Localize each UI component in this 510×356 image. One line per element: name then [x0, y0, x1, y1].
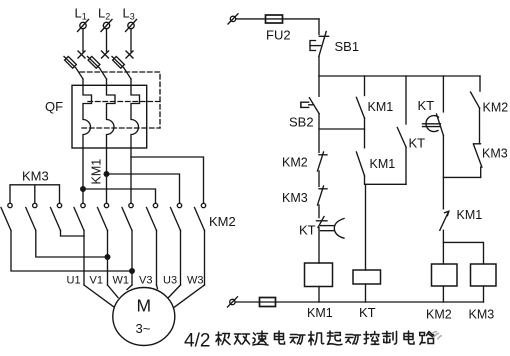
label KM2 (power bank): [209, 214, 236, 229]
wire branch4 mid: [442, 136, 444, 209]
svg-text:KM3: KM3: [282, 191, 308, 205]
wire KT coil feed: [365, 184, 367, 270]
svg-text:KM2: KM2: [483, 101, 509, 115]
wire branch4 to bridge: [442, 230, 444, 264]
label U1: [67, 275, 81, 287]
contactor KM3 main contact 3: [51, 203, 62, 230]
motor label 3~: [136, 321, 151, 336]
label KM3 (branch5): [482, 147, 508, 161]
wire phase2 below QF: [106, 148, 108, 203]
wire branch3 bottom: [405, 147, 407, 184]
label SB2: [289, 115, 314, 130]
contactor KM1 main contact 2: [98, 203, 109, 230]
svg-text:4/2: 4/2: [184, 331, 210, 352]
fixed contact x phase1: [78, 51, 85, 58]
svg-text:V1: V1: [90, 275, 103, 287]
wire W1 to motor: [127, 285, 132, 290]
wire L3 drop: [130, 29, 132, 52]
wire V1 down: [107, 231, 109, 286]
terminal control top: [228, 14, 238, 24]
QF pole 2: [107, 85, 116, 148]
wire phase1 to KM2 contact1: [83, 189, 156, 203]
contact KM2 NC (branch1): [318, 152, 328, 171]
wire branch5 tie: [443, 176, 480, 178]
label U3: [163, 275, 177, 287]
terminal control bottom: [228, 297, 238, 307]
wire L1 drop: [82, 29, 84, 52]
label L3: [123, 6, 135, 22]
wire KM3 c2 to node V1: [36, 231, 108, 258]
contactor KM2 main contact 1: [147, 203, 158, 230]
QF linkage dashed: [80, 72, 160, 128]
fixed contact x phase3: [126, 51, 133, 58]
circuit breaker QF box: [72, 85, 147, 148]
label KT (branch4): [418, 98, 435, 113]
svg-text:KM3: KM3: [469, 308, 495, 322]
coil KT: [353, 270, 381, 284]
label KT (branch1): [299, 223, 316, 238]
wire phase1 below QF: [82, 148, 84, 203]
wire branch1 top: [318, 76, 320, 96]
svg-text:KT: KT: [359, 305, 376, 320]
contact KM1 NO (branch4): [440, 211, 449, 230]
wire coil KM3 to bus: [483, 286, 485, 302]
contact KT NC delayed (branch1): [317, 217, 345, 239]
node phase1 junction: [81, 187, 86, 192]
svg-text:W1: W1: [113, 275, 130, 287]
wire coil KM2 to bus: [442, 286, 444, 302]
label V3: [139, 275, 152, 287]
label FU2: [266, 28, 291, 43]
wire phase3 to KM2 contact3: [131, 157, 204, 203]
QF pole 1: [83, 85, 92, 148]
wire KM3 c1 to node W1: [11, 231, 132, 272]
label KM1 b: [370, 157, 396, 171]
watermark: [432, 332, 442, 340]
wire latch tie: [319, 128, 365, 130]
fuse-switch blade phase3: [112, 56, 131, 79]
wire V3 down: [156, 231, 158, 286]
wire phase2 to KM2 contact2: [107, 174, 180, 203]
svg-text:V3: V3: [139, 275, 152, 287]
svg-text:KM3: KM3: [482, 147, 508, 161]
label SB1: [335, 39, 360, 54]
wire control bus: [319, 75, 480, 77]
svg-text:QF: QF: [45, 99, 63, 114]
contact KM3 NC (branch5): [473, 144, 482, 167]
contact KM1 NO b (branch2): [356, 152, 364, 176]
contact KM2 NO (branch5): [471, 92, 480, 108]
fuse FU2: [266, 15, 283, 23]
wire V1 to motor: [108, 285, 119, 298]
wire branch5 top: [479, 76, 481, 91]
fuse-switch blade phase1: [64, 56, 83, 79]
svg-text:KM1: KM1: [370, 157, 396, 171]
contact KM1 NO a (branch2): [356, 97, 364, 118]
svg-text:KM1: KM1: [307, 306, 333, 320]
contactor KM2 main contact 3: [195, 203, 206, 230]
contactor KM3 main contact 1: [1, 203, 12, 230]
svg-text:KM2: KM2: [426, 308, 452, 322]
label L2: [98, 6, 110, 22]
node phase2 junction: [104, 172, 109, 177]
contactor KM1 main contact 1: [74, 203, 85, 230]
wire L2 drop: [106, 29, 108, 52]
wire SB2 bottom: [318, 114, 320, 153]
wire W3 to motor: [175, 285, 205, 307]
motor label M: [137, 296, 152, 316]
wire KM3 bus: [10, 185, 60, 204]
fuse FU (bottom): [260, 298, 276, 307]
wire coil KT to bus: [365, 284, 367, 302]
caption hanzi 极双速电动机起动控制电路: [216, 331, 434, 345]
svg-text:W3: W3: [187, 275, 204, 287]
fuse-switch blade phase2: [88, 56, 107, 79]
QF pole 3: [131, 85, 140, 148]
svg-text:KT: KT: [299, 223, 316, 238]
svg-text:U3: U3: [163, 275, 177, 287]
label L1: [75, 6, 87, 22]
wire branch1 mid1: [318, 171, 320, 186]
svg-text:KM2: KM2: [209, 214, 236, 229]
wire branch1 to coil: [318, 228, 320, 264]
label KM2 (branch5): [483, 101, 509, 115]
fixed contact x phase2: [102, 51, 109, 58]
wire top feed: [236, 18, 319, 20]
wire U3 to motor: [169, 285, 181, 298]
label KT (coil): [359, 305, 376, 320]
wire branch5 bottom: [480, 167, 482, 177]
contact KM3 NC (branch1): [318, 186, 328, 205]
label KM2 (branch1): [282, 156, 308, 170]
contact KT NO delayed (branch4): [423, 114, 444, 136]
label W3: [187, 275, 204, 287]
wire phase3 into QF: [130, 79, 132, 85]
label KT (branch3): [409, 136, 426, 151]
QF label: [45, 99, 63, 114]
wire U3 down: [180, 231, 182, 286]
coil KM2: [432, 264, 458, 286]
wire branch4 top: [442, 76, 444, 112]
node V1 junction: [105, 255, 110, 260]
label W1: [113, 275, 130, 287]
svg-text:M: M: [137, 296, 152, 316]
svg-text:KM3: KM3: [22, 169, 49, 184]
pushbutton SB2 (NO): [301, 98, 319, 114]
svg-text:KT: KT: [409, 136, 426, 151]
label KM1 (rotated, power): [90, 159, 104, 185]
svg-text:SB2: SB2: [289, 115, 314, 130]
svg-text:3~: 3~: [136, 321, 151, 336]
wire coil bridge: [443, 242, 483, 264]
wire coil KM1 to bus: [318, 287, 320, 303]
terminal L1: [78, 20, 89, 32]
svg-text:KM1: KM1: [457, 208, 483, 222]
svg-text:U1: U1: [67, 275, 81, 287]
wire branch5 mid: [479, 108, 481, 144]
coil KM1: [305, 263, 333, 287]
wire branch2 mid: [364, 118, 366, 147]
wire U1 to motor: [84, 285, 114, 307]
node W1 junction: [130, 269, 135, 274]
wire phase3 below QF: [130, 148, 132, 203]
svg-text:SB1: SB1: [335, 39, 360, 54]
label KM1 a: [368, 100, 394, 114]
pushbutton SB1 (NC): [310, 32, 329, 57]
label KM2 (coil): [426, 308, 452, 322]
svg-text:KT: KT: [418, 98, 435, 113]
label KM1 (branch4): [457, 208, 483, 222]
terminal L2: [101, 20, 112, 32]
wire phase2 into QF: [106, 79, 108, 85]
wire branch2 bottom tie: [365, 176, 407, 184]
contactor KM2 main contact 2: [171, 203, 182, 230]
coil KM3: [471, 264, 497, 286]
wire W3 down: [204, 231, 206, 286]
label KM3 (branch1): [282, 191, 308, 205]
wire V3 to motor: [157, 285, 158, 289]
svg-text:KM1: KM1: [90, 159, 104, 185]
wire phase1 into QF: [82, 79, 84, 85]
motor M: [113, 288, 175, 346]
label KM3 (power bank): [22, 169, 49, 184]
svg-text:KM2: KM2: [282, 156, 308, 170]
wire branch1 mid2: [318, 205, 320, 218]
label KM1 (coil): [307, 306, 333, 320]
wire to SB1: [318, 19, 320, 35]
svg-text:FU2: FU2: [266, 28, 291, 43]
wire U1 down: [83, 231, 85, 286]
contactor KM1 main contact 3: [122, 203, 133, 230]
wire KM3 c3 to U1 line: [61, 231, 85, 237]
contact KT NO (branch3): [397, 128, 406, 148]
wire branch2 top: [364, 76, 366, 96]
label V1: [90, 275, 103, 287]
wire branch3 top: [405, 76, 407, 124]
svg-text:KM1: KM1: [368, 100, 394, 114]
label KM3 (coil): [469, 308, 495, 322]
wire SB1 to bus: [318, 57, 320, 77]
wire bottom bus: [235, 301, 484, 303]
wire W1 down: [131, 231, 133, 286]
contactor KM3 main contact 2: [26, 203, 37, 230]
terminal L3: [126, 20, 137, 32]
